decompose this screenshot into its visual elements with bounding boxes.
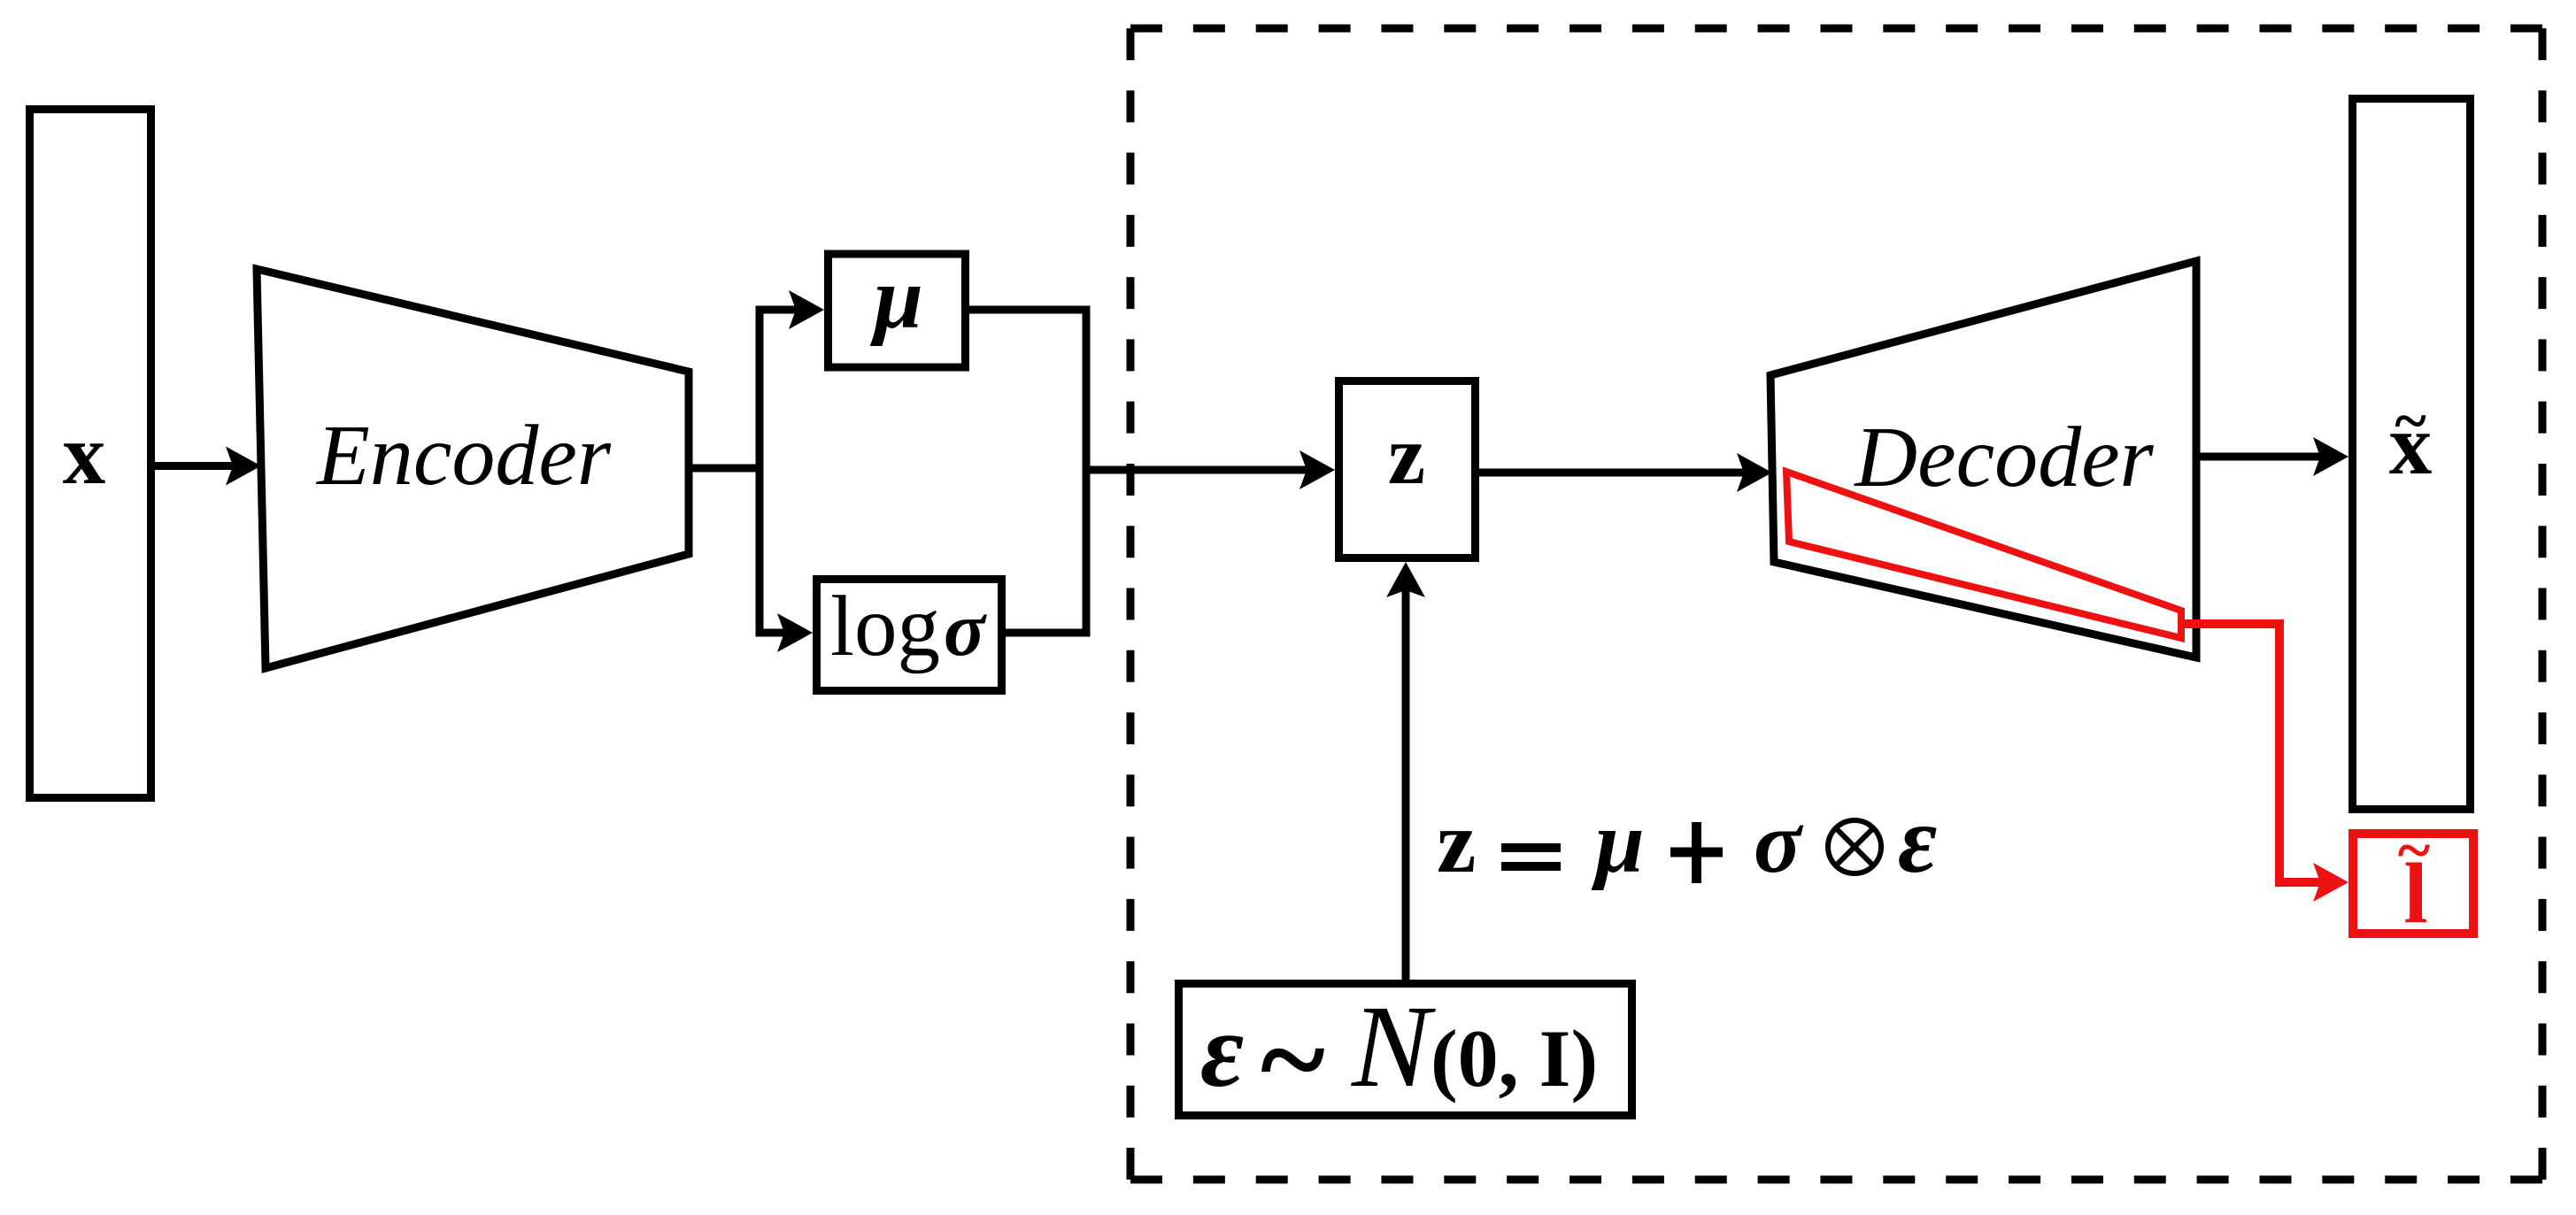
svg-text:x: x [63,407,106,502]
wire log sigma to collector [1006,629,1091,637]
svg-text:N: N [1351,980,1436,1111]
wire epsilon to z [1402,589,1410,980]
svg-text:μ: μ [869,249,923,347]
arrowhead into z bottom [1386,562,1425,597]
svg-text:Decoder: Decoder [1853,410,2154,505]
wire x to Encoder [155,462,235,470]
svg-text:μ: μ [1591,793,1645,891]
I-tilde box [2353,834,2473,934]
log sigma box [817,580,1002,691]
arrowhead into log sigma [777,613,813,652]
dashed box left edge [1127,28,1135,1180]
wire Decoder to x-tilde [2196,453,2323,461]
svg-text:ε: ε [1200,991,1244,1109]
svg-text:Encoder: Encoder [315,408,612,504]
svg-text:~: ~ [2395,387,2426,454]
arrowhead into Encoder [226,447,261,486]
wire collector to z [1086,466,1309,474]
input vector x box [30,110,151,798]
svg-text:ε: ε [1898,788,1937,893]
svg-text:σ: σ [1754,793,1804,891]
wire to mu box [760,306,798,314]
svg-text:z: z [1388,408,1425,502]
wire mu to collector [969,306,1091,314]
dashed box bottom edge [1130,1176,2542,1184]
formula otimes symbol [1828,820,1881,873]
svg-text:~: ~ [2398,817,2430,885]
wire Encoder to split node [689,465,763,473]
latent z box [1339,381,1476,558]
wire to log sigma box [760,629,787,637]
mu box [829,254,966,367]
wire z to Decoder [1479,469,1747,477]
Decoder trapezoid [1770,261,2196,657]
formula equals sign [1501,843,1561,852]
epsilon noise box [1179,984,1632,1116]
svg-text:logσ: logσ [830,579,987,673]
split vertical wire [756,306,764,637]
arrowhead into mu [789,290,824,329]
formula plus sign [1670,848,1723,857]
red wire from sub-layer to I-tilde [2181,624,2323,882]
Encoder trapezoid [257,269,689,668]
collector vertical wire [1083,306,1091,637]
red sub-layer trapezoid inside Decoder [1786,472,2181,638]
svg-text:~: ~ [1261,991,1325,1128]
dashed box right edge [2539,28,2547,1180]
red arrowhead into I-tilde [2313,863,2348,902]
dashed sampling region box: top edge [1130,25,2542,33]
arrowhead into x-tilde [2313,437,2348,476]
output vector x-tilde box [2353,99,2471,810]
arrowhead into Decoder [1737,453,1772,492]
arrowhead into z [1300,450,1335,489]
svg-text:(0, I): (0, I) [1431,1013,1598,1103]
svg-text:z: z [1437,793,1476,891]
